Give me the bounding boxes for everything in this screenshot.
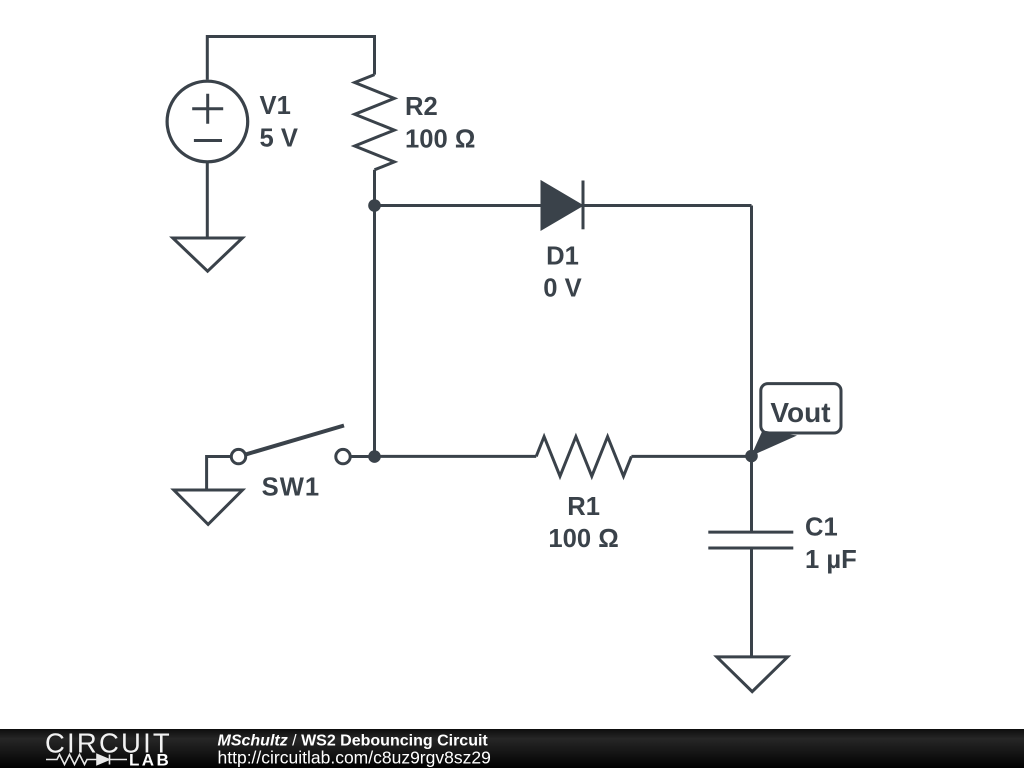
- svg-text:1 µF: 1 µF: [805, 546, 857, 574]
- voltage source V1: [167, 81, 248, 162]
- svg-text:5 V: 5 V: [260, 125, 298, 153]
- svg-text:R2: R2: [405, 93, 438, 121]
- ground (below C1): [717, 657, 788, 692]
- logo circuit doodle (resistor + diode): [46, 755, 127, 765]
- wire top (V1 top to R2 top): [207, 37, 374, 80]
- wire node C to R1 left: [375, 455, 537, 458]
- svg-text:D1: D1: [546, 243, 579, 271]
- junction node B (Vout): [745, 450, 758, 463]
- svg-text:C1: C1: [805, 514, 838, 542]
- svg-text:R1: R1: [567, 493, 600, 521]
- capacitor C1: [708, 532, 793, 548]
- svg-text:100 Ω: 100 Ω: [405, 126, 475, 154]
- resistor R2: [355, 75, 395, 170]
- wire node B down to C1: [750, 456, 753, 532]
- diode D1: [542, 181, 583, 230]
- wire diode cathode to right corner: [583, 204, 752, 207]
- wire C1 bottom to ground: [750, 548, 753, 657]
- svg-text:http://circuitlab.com/c8uz9rgv: http://circuitlab.com/c8uz9rgv8sz29: [218, 747, 491, 767]
- junction node A: [368, 199, 381, 212]
- svg-text:SW1: SW1: [262, 474, 320, 502]
- node Vout flag: [751, 384, 841, 456]
- wire node A down to node C: [373, 206, 376, 457]
- footer bar: [0, 729, 1024, 768]
- ground (below SW1): [174, 490, 243, 524]
- svg-text:V1: V1: [260, 92, 291, 120]
- junction node C: [368, 450, 381, 463]
- wire right vertical (corner to node B): [750, 206, 753, 457]
- wire R2 bottom to node A: [373, 170, 376, 206]
- svg-text:100 Ω: 100 Ω: [548, 525, 618, 553]
- resistor R1: [536, 437, 631, 477]
- ground (below V1): [173, 238, 243, 271]
- wire V1 bottom to ground: [206, 162, 209, 238]
- svg-text:0 V: 0 V: [543, 275, 581, 303]
- switch SW1: [207, 426, 375, 491]
- svg-text:LAB: LAB: [129, 750, 171, 768]
- wire node A to diode anode: [375, 204, 543, 207]
- wire R1 right to node B: [631, 455, 751, 458]
- svg-text:Vout: Vout: [770, 397, 830, 428]
